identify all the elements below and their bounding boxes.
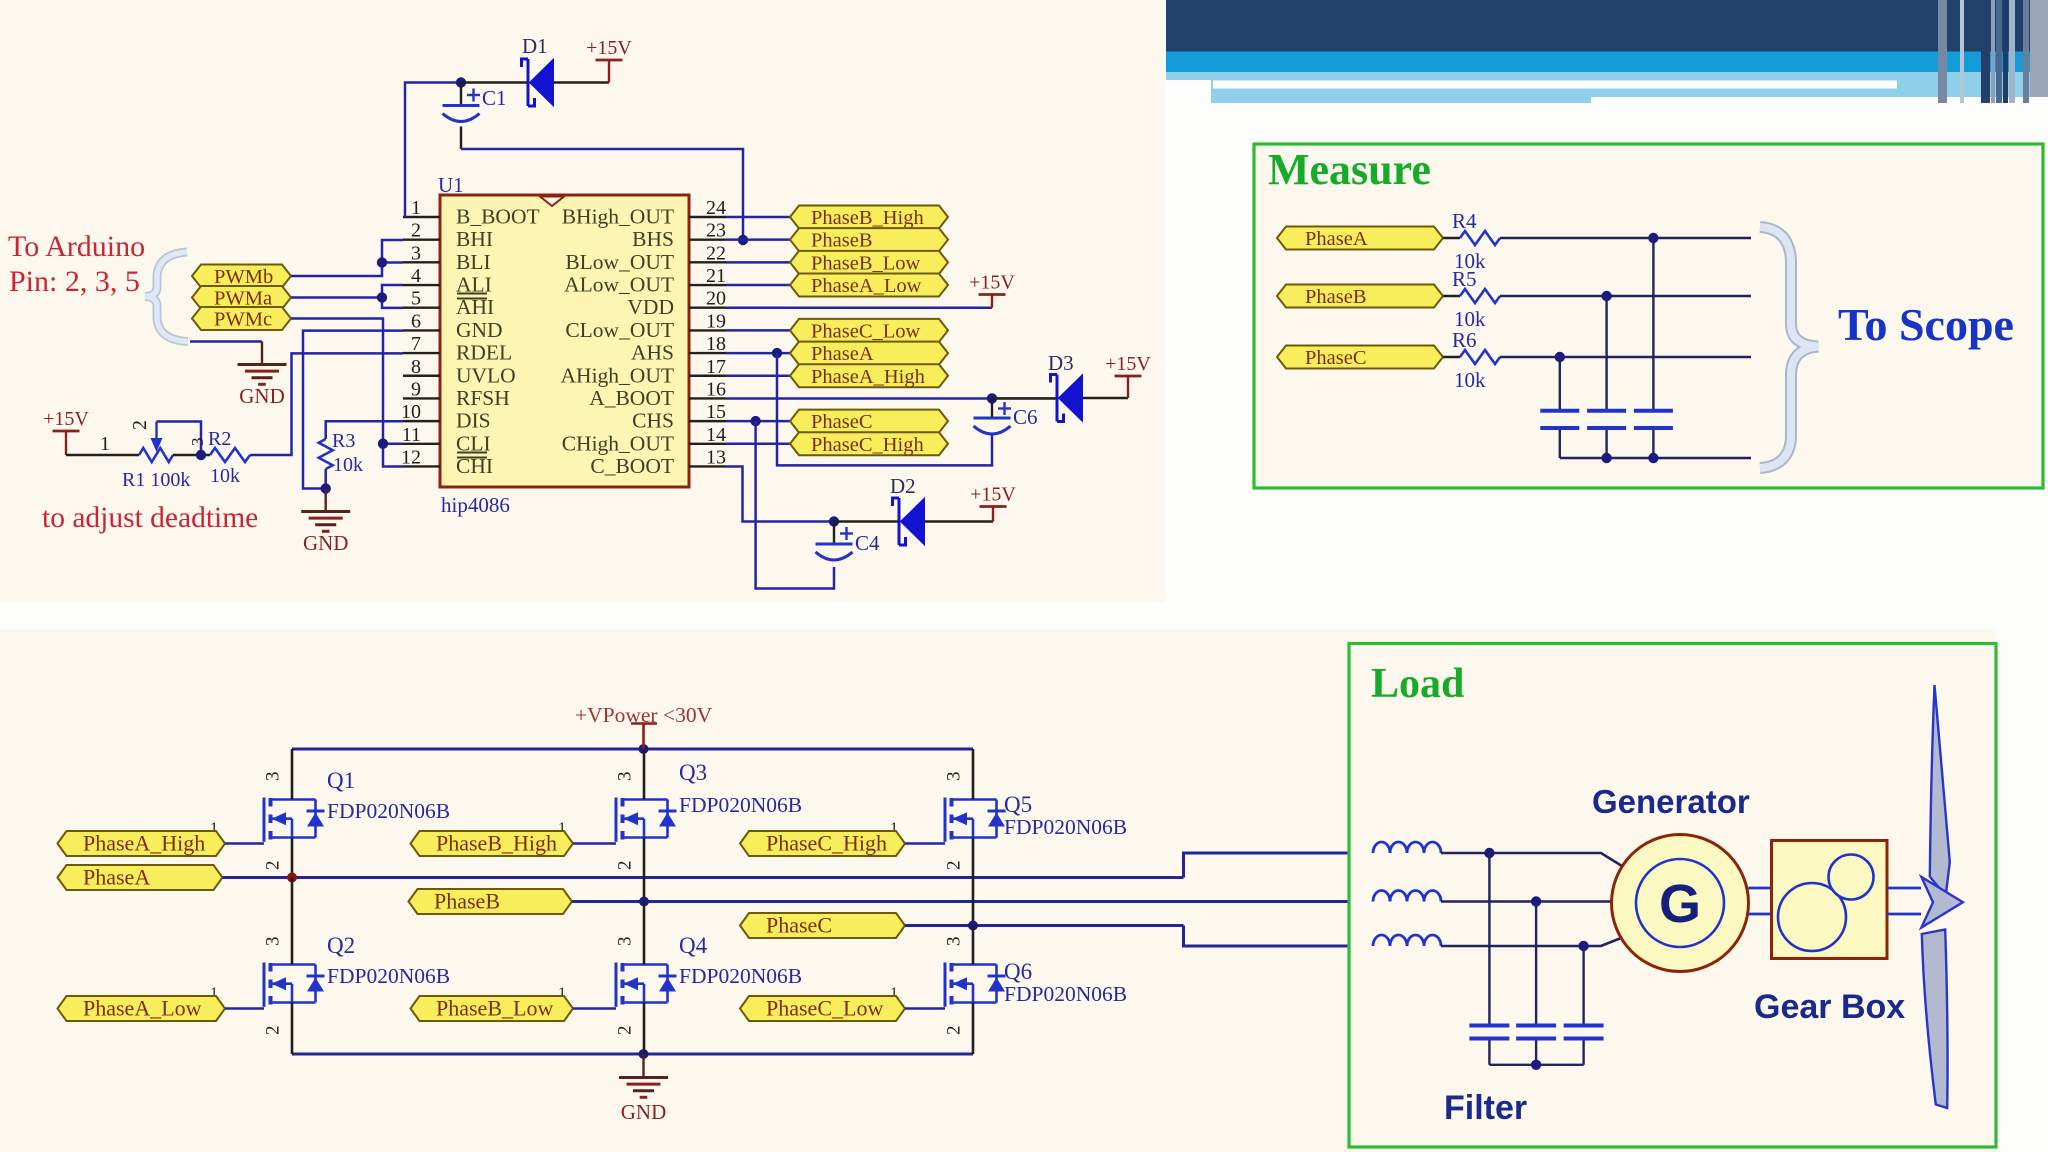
svg-text:GND: GND — [621, 1100, 667, 1124]
wire C1 to BHS net — [460, 127, 462, 150]
net tag PhaseB_High — [790, 206, 948, 230]
wire L2 to generator — [1441, 900, 1612, 903]
svg-text:C1: C1 — [482, 86, 507, 110]
net tag PhaseB_High — [411, 831, 574, 857]
svg-text:DIS: DIS — [456, 409, 491, 433]
svg-text:PhaseB_Low: PhaseB_Low — [811, 252, 921, 274]
svg-text:3: 3 — [944, 937, 965, 947]
IC notch — [540, 197, 564, 207]
PhaseA junction (red) — [287, 873, 297, 883]
svg-text:C_BOOT: C_BOOT — [590, 454, 674, 478]
svg-text:24: 24 — [706, 197, 726, 219]
IC left pin numbers — [401, 197, 421, 468]
svg-text:R6: R6 — [1452, 328, 1477, 352]
svg-text:FDP020N06B: FDP020N06B — [679, 793, 802, 817]
svg-text:4: 4 — [411, 265, 421, 287]
transistor Q3 — [616, 798, 677, 842]
svg-text:20: 20 — [706, 288, 726, 310]
net tag PhaseB_Low — [411, 996, 574, 1022]
IC right pin names — [561, 205, 674, 478]
junction PWMa tee — [377, 292, 387, 302]
wire R6 to scope bus — [1500, 356, 1751, 358]
wire pin15 CHS to PhaseC — [726, 420, 790, 423]
svg-text:12: 12 — [401, 446, 421, 468]
R1 wiper jumper — [157, 422, 202, 456]
svg-text:To Arduino: To Arduino — [8, 230, 145, 263]
svg-text:10: 10 — [401, 401, 421, 423]
svg-text:PhaseB: PhaseB — [434, 889, 500, 914]
net tag PhaseA (measure) — [1277, 227, 1443, 251]
svg-text:PhaseC: PhaseC — [766, 913, 832, 938]
svg-text:FDP020N06B: FDP020N06B — [327, 964, 450, 988]
wire pin21 to PhaseA_Low — [726, 284, 790, 287]
capacitor C1 — [460, 83, 462, 105]
junction filter A — [1484, 848, 1494, 858]
svg-text:+15V: +15V — [970, 484, 1016, 506]
svg-text:16: 16 — [706, 378, 726, 400]
wire pin24 to PhaseB_High — [726, 216, 790, 219]
net tag PhaseB_Low — [790, 251, 948, 274]
generator inner circle — [1636, 859, 1724, 947]
svg-text:+15V: +15V — [43, 408, 89, 430]
net tag PhaseA — [58, 865, 223, 891]
wire CHS to C4 bottom — [756, 421, 834, 588]
svg-text:PhaseC_High: PhaseC_High — [811, 434, 924, 456]
transistor Q5 — [945, 798, 1006, 842]
wire R3 bottom to ground — [324, 469, 327, 489]
junction on CHS — [750, 416, 760, 426]
capacitor (measure C on PhaseC) — [1540, 409, 1579, 413]
svg-text:13: 13 — [706, 446, 726, 468]
svg-text:+15V: +15V — [969, 272, 1015, 294]
wire R5 to scope bus — [1500, 295, 1751, 297]
junction node PhaseC — [1555, 352, 1565, 362]
svg-text:+15V: +15V — [586, 37, 632, 59]
inductor L2 — [1373, 891, 1441, 902]
wire R2 to RDEL pin7 — [250, 353, 403, 455]
junction node PhaseB — [1601, 291, 1611, 301]
PhaseC line — [905, 924, 1184, 927]
svg-text:To Scope: To Scope — [1838, 299, 2014, 350]
turbine hub arrow — [1921, 877, 1963, 928]
svg-text:BHS: BHS — [632, 227, 674, 251]
gear wheel small — [1829, 855, 1874, 900]
svg-text:21: 21 — [706, 265, 726, 287]
banner light blue tab — [1166, 72, 1211, 80]
junction filter B — [1531, 896, 1541, 906]
svg-text:D3: D3 — [1048, 351, 1074, 375]
svg-text:3: 3 — [263, 937, 284, 947]
banner white stripe — [1213, 81, 1897, 89]
IC left pin stubs — [403, 217, 440, 466]
+15V symbol (D3) — [1127, 376, 1129, 398]
brace to scope — [1760, 227, 1818, 468]
filter capacitor C — [1564, 1024, 1604, 1028]
svg-text:GND: GND — [456, 318, 503, 342]
capacitor (measure C on PhaseA) — [1634, 409, 1673, 413]
svg-text:Q4: Q4 — [679, 933, 708, 958]
banner navy band — [1166, 0, 2048, 52]
capacitor C4 — [833, 522, 835, 544]
svg-text:Measure: Measure — [1268, 145, 1431, 194]
capacitor (measure C on PhaseB) — [1587, 409, 1626, 413]
svg-text:9: 9 — [411, 378, 421, 400]
svg-text:RFSH: RFSH — [456, 386, 510, 410]
turbine blade upper — [1930, 685, 1950, 895]
filter vertical B — [1535, 902, 1537, 1025]
wire node to D1 anode — [461, 81, 527, 84]
svg-text:PhaseB: PhaseB — [811, 230, 873, 252]
wire PhaseB_High to Q3 gate — [573, 842, 616, 845]
PhaseB junction — [639, 897, 649, 907]
ground symbol (bridge) — [619, 1076, 668, 1079]
junction on AHS — [772, 348, 782, 358]
cream schematic panel top-left — [0, 0, 1165, 602]
svg-text:2: 2 — [615, 861, 636, 871]
gear wheel large — [1778, 883, 1846, 951]
svg-text:PhaseA_High: PhaseA_High — [83, 831, 205, 856]
svg-text:5: 5 — [411, 288, 421, 310]
svg-text:hip4086: hip4086 — [441, 493, 510, 517]
filter vertical A — [1488, 853, 1490, 1024]
svg-text:PhaseA_Low: PhaseA_Low — [811, 275, 922, 297]
filter bus — [1489, 1064, 1583, 1066]
IC active-low bars ALI/AHI CLI/CHI — [457, 293, 487, 295]
svg-text:19: 19 — [706, 310, 726, 332]
svg-text:Filter: Filter — [1444, 1089, 1527, 1127]
junction on pin 23 (BHS) — [738, 235, 748, 245]
svg-text:2: 2 — [263, 1026, 284, 1036]
svg-text:PhaseA_High: PhaseA_High — [811, 366, 925, 388]
net tag PhaseC_Low — [790, 319, 948, 343]
wire pin22 to PhaseB_Low — [726, 261, 790, 264]
net tag PhaseC_High — [790, 432, 948, 456]
wire PhaseB_Low to Q4 gate — [573, 1007, 616, 1010]
IC left pin names — [456, 205, 540, 478]
svg-text:BLI: BLI — [456, 250, 491, 274]
svg-text:PhaseC_Low: PhaseC_Low — [766, 996, 883, 1021]
wire PhaseC_Low to Q6 gate — [905, 1007, 945, 1010]
filter capacitor B — [1516, 1024, 1556, 1028]
node A_BOOT/C6 — [987, 393, 997, 403]
svg-text:FDP020N06B: FDP020N06B — [679, 964, 802, 988]
svg-text:1: 1 — [100, 433, 110, 455]
svg-text:6: 6 — [411, 310, 421, 332]
filter cap verticals (measure) — [1652, 238, 1654, 409]
banner light blue band — [1211, 72, 2048, 103]
generator shaft — [1749, 887, 1772, 890]
svg-text:14: 14 — [706, 424, 726, 446]
+15V symbol (VDD) — [991, 295, 993, 308]
svg-text:3: 3 — [615, 937, 636, 947]
transistor Q4 — [616, 963, 677, 1007]
net tag PhaseA_Low — [790, 274, 948, 298]
wire +15V to R1 — [66, 454, 139, 457]
ground symbol (arduino) — [238, 363, 287, 366]
svg-text:U1: U1 — [438, 173, 464, 197]
wire PhaseA_High to Q1 gate — [225, 842, 264, 845]
wire pin20 VDD to +15V — [726, 306, 992, 309]
wire pin17 to PhaseA_High — [726, 375, 790, 378]
svg-text:PhaseC: PhaseC — [1305, 347, 1367, 369]
svg-text:Q5: Q5 — [1004, 792, 1032, 817]
wire D3 to +15V — [1083, 397, 1128, 400]
svg-text:10k: 10k — [333, 454, 363, 476]
junction bus B — [1601, 453, 1611, 463]
junction filter bus — [1531, 1060, 1541, 1070]
scope ground bus — [1560, 457, 1751, 459]
svg-text:17: 17 — [706, 356, 726, 378]
svg-text:2: 2 — [129, 420, 151, 430]
svg-text:7: 7 — [411, 333, 421, 355]
junction R1/R2 — [173, 454, 210, 457]
potentiometer R1 — [139, 448, 173, 462]
svg-text:FDP020N06B: FDP020N06B — [1004, 982, 1127, 1006]
svg-text:G: G — [1659, 874, 1701, 934]
svg-text:GND: GND — [303, 531, 349, 555]
svg-text:R2: R2 — [208, 428, 231, 450]
svg-text:+VPower <30V: +VPower <30V — [575, 703, 713, 727]
svg-text:FDP020N06B: FDP020N06B — [1004, 815, 1127, 839]
resistor R5 10k — [1443, 295, 1460, 297]
wire L1 to generator — [1441, 853, 1626, 869]
wire L3 to generator — [1441, 936, 1626, 946]
IC right pin stubs — [689, 217, 726, 466]
svg-text:Q2: Q2 — [327, 933, 355, 958]
net tag PhaseA_High — [58, 831, 226, 857]
svg-text:2: 2 — [615, 1026, 636, 1036]
svg-text:22: 22 — [706, 242, 726, 264]
svg-text:Gear Box: Gear Box — [1754, 988, 1905, 1026]
IC U1 hip4086 body — [440, 195, 689, 487]
svg-text:D2: D2 — [890, 474, 916, 498]
svg-text:23: 23 — [706, 220, 726, 242]
svg-text:FDP020N06B: FDP020N06B — [327, 799, 450, 823]
node C1/D1 junction — [456, 77, 466, 87]
junction filter C — [1578, 941, 1588, 951]
svg-text:BHI: BHI — [456, 227, 493, 251]
svg-text:8: 8 — [411, 356, 421, 378]
svg-text:PhaseA: PhaseA — [811, 343, 874, 365]
svg-text:RDEL: RDEL — [456, 341, 512, 365]
banner bright blue band — [1166, 52, 2048, 73]
svg-text:PhaseA_Low: PhaseA_Low — [83, 996, 202, 1021]
wire brace to GND symbol — [190, 340, 262, 343]
net tag PhaseC — [790, 410, 948, 434]
inductor L1 — [1373, 842, 1441, 853]
GND junction — [639, 1049, 649, 1059]
power rail top — [292, 748, 973, 751]
svg-text:18: 18 — [706, 333, 726, 355]
generator outer circle — [1612, 835, 1749, 972]
cream schematic panel bottom — [0, 629, 1996, 1152]
svg-text:PhaseB: PhaseB — [1305, 286, 1367, 308]
diode D3 (schottky) — [1059, 375, 1083, 422]
net tag PWMc — [192, 307, 291, 331]
net tag PhaseC_High — [740, 831, 905, 857]
svg-text:BHigh_OUT: BHigh_OUT — [562, 205, 674, 229]
svg-text:to adjust deadtime: to adjust deadtime — [42, 502, 258, 534]
svg-text:BLow_OUT: BLow_OUT — [565, 250, 674, 274]
svg-text:11: 11 — [402, 424, 421, 446]
brace grouping PWM ports — [145, 252, 188, 342]
net tag PhaseB — [409, 889, 573, 915]
R1 wiper arrow — [151, 438, 163, 452]
wire pin23 to PhaseB — [726, 238, 790, 241]
svg-text:PhaseB_High: PhaseB_High — [811, 207, 924, 229]
svg-text:D1: D1 — [522, 34, 548, 58]
svg-text:1: 1 — [411, 197, 421, 219]
svg-text:R1 100k: R1 100k — [122, 469, 190, 491]
diode D2 (schottky) — [901, 498, 925, 545]
banner white step — [1591, 97, 2048, 103]
wire pin18 AHS to PhaseA — [726, 352, 790, 355]
svg-text:3: 3 — [615, 772, 636, 782]
wire pin14 to PhaseC_High — [726, 443, 790, 446]
svg-text:PWMc: PWMc — [214, 309, 272, 331]
net tag PhaseC — [740, 913, 905, 939]
svg-text:ALow_OUT: ALow_OUT — [564, 273, 674, 297]
junction node PhaseA — [1648, 233, 1658, 243]
wire PhaseC_High to Q5 gate — [905, 842, 945, 845]
svg-text:R4: R4 — [1452, 209, 1477, 233]
svg-text:2: 2 — [411, 220, 421, 242]
banner right stripe cluster — [1938, 0, 2048, 103]
svg-text:UVLO: UVLO — [456, 363, 516, 387]
diode D1 (schottky) — [530, 59, 554, 106]
svg-text:Q1: Q1 — [327, 768, 355, 793]
svg-text:B_BOOT: B_BOOT — [456, 205, 540, 229]
PhaseC junction — [968, 921, 978, 931]
net tag PhaseA — [790, 342, 948, 366]
filter vertical C — [1582, 946, 1584, 1024]
svg-text:Pin: 2, 3, 5: Pin: 2, 3, 5 — [9, 265, 140, 298]
wire PWMb to pins 2,3 — [291, 240, 403, 276]
svg-text:Load: Load — [1371, 661, 1464, 707]
svg-text:+15V: +15V — [1105, 353, 1151, 375]
+15V symbol (D2) — [992, 507, 994, 522]
svg-text:PhaseB_High: PhaseB_High — [436, 831, 557, 856]
transistor Q2 — [264, 963, 325, 1007]
svg-text:3: 3 — [188, 438, 207, 447]
PhaseA feed step — [1184, 853, 1374, 878]
svg-text:PWMb: PWMb — [214, 266, 273, 288]
inductor L3 — [1373, 935, 1441, 946]
gearbox shaft to turbine — [1887, 887, 1921, 890]
svg-text:2: 2 — [263, 861, 284, 871]
svg-text:3: 3 — [411, 242, 421, 264]
wire AHS to C6 bottom — [777, 353, 992, 465]
node C_BOOT/C4 — [829, 516, 839, 526]
resistor R3 — [319, 439, 333, 469]
svg-text:3: 3 — [944, 772, 965, 782]
svg-text:PhaseC: PhaseC — [811, 411, 873, 433]
svg-text:Q3: Q3 — [679, 760, 707, 785]
capacitor C6 — [991, 398, 993, 417]
svg-text:2: 2 — [944, 861, 965, 871]
net tag PhaseA_High — [790, 364, 948, 388]
+15V symbol (D1) — [608, 60, 610, 83]
wire pin6 GND down — [303, 331, 403, 489]
svg-text:Generator: Generator — [1592, 783, 1750, 820]
svg-text:AHigh_OUT: AHigh_OUT — [561, 363, 674, 387]
wire PhaseA_Low to Q2 gate — [225, 1007, 264, 1010]
svg-text:PhaseA: PhaseA — [1305, 228, 1368, 250]
turbine blade lower — [1922, 930, 1948, 1109]
wire PWMa to pins 4,5 — [382, 285, 403, 308]
net tag PWMa — [192, 286, 291, 310]
junction pin11 — [378, 439, 388, 449]
svg-text:PhaseC_High: PhaseC_High — [766, 831, 887, 856]
net tag PhaseB (measure) — [1277, 285, 1443, 309]
svg-text:3: 3 — [263, 772, 284, 782]
wire D1 to +15V — [554, 81, 610, 84]
svg-text:C6: C6 — [1013, 405, 1038, 429]
transistor Q6 — [945, 963, 1006, 1007]
wire pin1 to node C1 — [405, 83, 461, 218]
gear box body — [1772, 841, 1888, 959]
net tag PhaseC (measure) — [1277, 346, 1443, 370]
ground rail bottom — [292, 1053, 973, 1056]
net tag PhaseB — [790, 228, 948, 252]
svg-text:2: 2 — [944, 1026, 965, 1036]
wire D2 to +15V — [925, 520, 993, 523]
junction bus A — [1648, 453, 1658, 463]
svg-text:C4: C4 — [855, 531, 880, 555]
svg-text:VDD: VDD — [627, 295, 674, 319]
svg-text:Q6: Q6 — [1004, 959, 1032, 984]
+VPower junction — [639, 744, 649, 754]
+VPower power symbol — [642, 724, 645, 750]
wire R3 to DIS pin10 — [326, 421, 403, 439]
resistor R6 10k — [1443, 356, 1460, 358]
wire PWMc to pins 11,12 — [291, 319, 403, 467]
Measure box frame — [1254, 144, 2043, 488]
svg-text:R3: R3 — [332, 430, 355, 452]
Load box frame — [1349, 644, 1996, 1148]
svg-text:R5: R5 — [1452, 267, 1477, 291]
svg-text:PhaseB_Low: PhaseB_Low — [436, 996, 553, 1021]
ground symbol (R3) — [301, 510, 350, 513]
svg-text:A_BOOT: A_BOOT — [589, 386, 674, 410]
net tag PhaseA_Low — [58, 996, 226, 1022]
wire pin13 C_BOOT to C4/D2 — [726, 466, 834, 521]
junction pin3 — [377, 257, 387, 267]
PhaseB line — [572, 900, 1373, 903]
svg-text:CLow_OUT: CLow_OUT — [565, 318, 674, 342]
resistor R2 — [210, 448, 250, 462]
svg-text:CHigh_OUT: CHigh_OUT — [562, 431, 674, 455]
wire pin16 A_BOOT to D3 — [726, 397, 992, 400]
IC right pin numbers — [706, 197, 726, 468]
svg-text:GND: GND — [239, 384, 285, 408]
transistor Q1 — [264, 798, 325, 842]
svg-text:PhaseA: PhaseA — [83, 865, 150, 890]
wire R4 to scope bus — [1500, 237, 1751, 239]
resistor R4 10k — [1443, 237, 1460, 239]
svg-text:PhaseC_Low: PhaseC_Low — [811, 320, 921, 342]
net tag PhaseC_Low — [740, 996, 905, 1022]
net tag PWMb — [192, 265, 291, 289]
svg-text:CHS: CHS — [632, 409, 674, 433]
svg-text:15: 15 — [706, 401, 726, 423]
PhaseC feed step — [1184, 926, 1374, 947]
svg-text:10k: 10k — [1454, 368, 1486, 392]
svg-text:AHS: AHS — [631, 341, 674, 365]
svg-text:10k: 10k — [210, 465, 240, 487]
filter capacitor A — [1469, 1024, 1509, 1028]
junction R3/GND — [321, 483, 331, 493]
